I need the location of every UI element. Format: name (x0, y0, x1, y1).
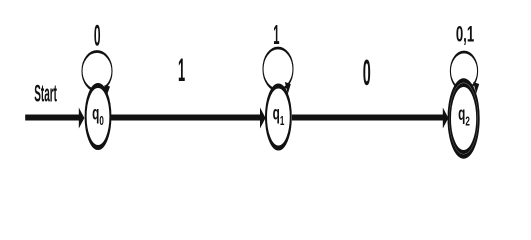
wire: start arrow line (25, 115, 79, 121)
svg-text:1: 1 (178, 53, 185, 88)
svg-text:0: 0 (94, 18, 101, 52)
svg-text:0: 0 (363, 52, 371, 93)
wire: q0 to q1 (111, 115, 261, 121)
arrowhead into q0 (79, 108, 85, 129)
q2 self-loop (450, 52, 477, 90)
wire: q1 to q2 (292, 115, 443, 121)
svg-text:Start: Start (34, 79, 57, 107)
diagram group squished horizontally (25, 18, 479, 157)
q0 self-loop arrowhead (104, 85, 110, 95)
svg-text:0,1: 0,1 (456, 22, 474, 46)
state q0 circle (86, 86, 111, 148)
state q2 outer circle (accepting) (448, 81, 478, 157)
q0 self-loop (82, 52, 112, 91)
arrowhead into q1 (260, 108, 266, 129)
svg-text:1: 1 (273, 19, 279, 51)
arrowhead into q2 (443, 108, 449, 129)
q2 self-loop arrowhead (473, 82, 479, 94)
q1 self-loop arrowhead (285, 82, 291, 94)
state q2 inner circle (450, 85, 477, 152)
q1 self-loop (263, 48, 293, 90)
state q1 circle (266, 86, 291, 148)
